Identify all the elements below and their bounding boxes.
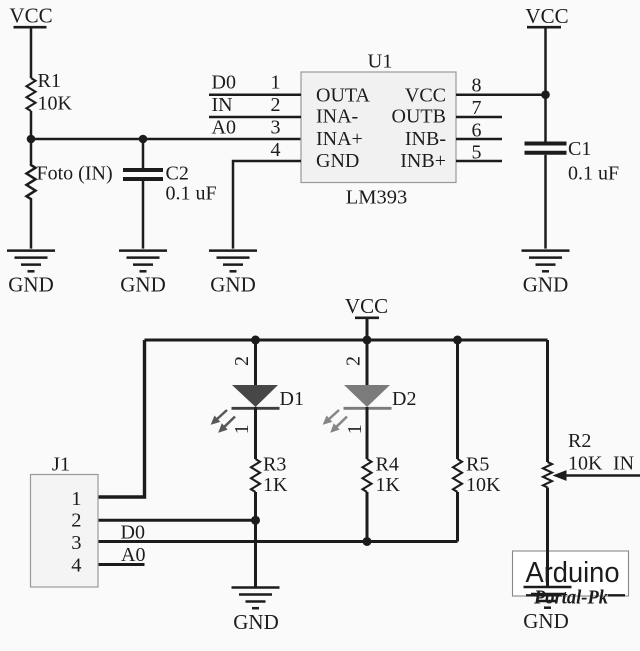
svg-text:GND: GND <box>523 273 569 297</box>
wire R2 to ground <box>546 488 549 587</box>
svg-text:D2: D2 <box>392 388 416 410</box>
wire R3 to ground through junction <box>254 492 257 587</box>
pin 3 label A0 <box>212 117 281 139</box>
svg-text:OUTB: OUTB <box>392 106 446 128</box>
node dot rail D1 <box>251 336 260 345</box>
resistor Foto (IN) photoresistor <box>27 139 113 249</box>
svg-text:R1: R1 <box>38 70 61 92</box>
node junction dot left <box>27 135 36 144</box>
connector J1 box <box>31 454 99 587</box>
svg-text:1: 1 <box>271 71 281 93</box>
ground GND6 <box>524 587 572 608</box>
pin 6 wire <box>456 119 502 141</box>
node dot rail D2 <box>363 336 372 345</box>
svg-text:LM393: LM393 <box>346 187 408 209</box>
svg-text:Arduino: Arduino <box>526 557 620 589</box>
VCC symbol top-left <box>9 4 52 28</box>
pin 5 wire <box>456 141 502 163</box>
op-amp U1 LM393 box <box>301 51 456 209</box>
svg-text:D0: D0 <box>121 521 145 543</box>
pin 2 wire IN <box>209 94 301 117</box>
wire VCC to R1 <box>30 27 33 78</box>
svg-text:1K: 1K <box>376 474 401 496</box>
svg-text:D0: D0 <box>212 71 236 93</box>
svg-text:10K: 10K <box>568 453 603 475</box>
wire bottom net J1 pin3 <box>98 540 458 543</box>
ground GND3 <box>209 251 257 297</box>
ground GND2 <box>119 251 167 297</box>
wire D2 to R4 <box>366 407 369 459</box>
wire VCC down to C1 <box>544 27 547 141</box>
svg-text:GND: GND <box>523 609 569 633</box>
svg-text:D1: D1 <box>280 388 304 410</box>
svg-text:1: 1 <box>231 424 253 434</box>
svg-text:10K: 10K <box>466 474 501 496</box>
potentiometer R2 <box>543 430 634 487</box>
svg-text:VCC: VCC <box>405 84 446 106</box>
svg-text:8: 8 <box>472 75 482 97</box>
svg-text:GND: GND <box>210 273 256 297</box>
wire C2 to ground <box>142 181 145 249</box>
svg-text:GND: GND <box>316 150 359 172</box>
node dot rail R5 <box>453 336 462 345</box>
resistor R5 <box>453 454 501 497</box>
svg-text:VCC: VCC <box>345 294 388 318</box>
svg-text:2: 2 <box>343 356 365 366</box>
svg-text:1K: 1K <box>263 474 288 496</box>
svg-text:GND: GND <box>120 273 166 297</box>
svg-text:4: 4 <box>271 139 281 161</box>
capacitor C1 <box>525 138 620 185</box>
wire rail to D1 <box>254 340 257 385</box>
capacitor C2 <box>123 163 217 205</box>
node dot R4 bottom <box>363 537 372 546</box>
wire rail to R5 <box>456 340 459 459</box>
wire R4 to bottom net <box>366 492 369 542</box>
svg-text:Foto (IN): Foto (IN) <box>37 163 113 185</box>
svg-text:4: 4 <box>71 555 81 577</box>
wire VCC to rail <box>366 318 369 340</box>
pin 4 wire to ground <box>233 139 301 249</box>
resistor R4 <box>363 454 401 497</box>
svg-text:J1: J1 <box>52 454 70 476</box>
node junction dot C2 <box>139 135 148 144</box>
node junction dot pin8/VCC <box>541 90 550 99</box>
svg-text:2: 2 <box>71 509 81 531</box>
svg-text:GND: GND <box>8 273 54 297</box>
pin 1 wire D0 <box>209 71 301 94</box>
svg-text:3: 3 <box>71 532 81 554</box>
light emission arrows D1 <box>212 410 236 432</box>
Portal-Pk logo script <box>526 587 625 609</box>
svg-text:A0: A0 <box>212 117 236 139</box>
pin 8 wire <box>456 75 546 97</box>
svg-text:R5: R5 <box>466 454 489 476</box>
wire VCC rail <box>145 339 548 342</box>
svg-text:INA+: INA+ <box>316 128 363 150</box>
svg-text:OUTA: OUTA <box>316 84 371 106</box>
wire J1 pin1 to rail <box>98 340 145 497</box>
ground GND4 <box>522 251 570 297</box>
resistor R1 <box>27 70 73 115</box>
VCC symbol top-right <box>525 4 568 28</box>
svg-text:R2: R2 <box>568 430 591 452</box>
svg-text:INA-: INA- <box>316 106 358 128</box>
svg-text:1: 1 <box>344 424 366 434</box>
node dot R3 / J1 pin2 <box>251 516 260 525</box>
wire R5 to bottom net <box>456 492 459 542</box>
svg-text:Portal-Pk: Portal-Pk <box>533 587 608 609</box>
wire J1 pin4 stub <box>98 563 145 566</box>
svg-text:2: 2 <box>231 356 253 366</box>
svg-text:GND: GND <box>233 610 279 634</box>
pin 7 wire <box>456 97 502 119</box>
svg-text:0.1 uF: 0.1 uF <box>166 183 217 205</box>
VCC symbol bottom-center <box>345 294 388 318</box>
svg-text:2: 2 <box>271 94 281 116</box>
svg-text:6: 6 <box>472 119 482 141</box>
svg-text:C2: C2 <box>166 163 189 185</box>
svg-text:VCC: VCC <box>9 4 52 28</box>
LED D1 <box>232 385 304 410</box>
svg-text:IN: IN <box>613 453 634 475</box>
wire C1 to ground <box>544 155 547 249</box>
resistor R3 <box>251 454 288 497</box>
svg-text:5: 5 <box>472 141 482 163</box>
svg-text:C1: C1 <box>568 138 591 160</box>
svg-text:10K: 10K <box>38 93 73 115</box>
svg-text:R4: R4 <box>376 454 399 476</box>
svg-text:INB+: INB+ <box>400 150 446 172</box>
svg-text:3: 3 <box>271 117 281 139</box>
Arduino logo box <box>513 551 629 596</box>
svg-text:7: 7 <box>472 97 482 119</box>
ground GND1 <box>7 251 55 297</box>
svg-text:A0: A0 <box>121 544 145 566</box>
ground GND5 <box>232 588 280 635</box>
light emission arrows D2 <box>324 410 348 432</box>
svg-text:1: 1 <box>71 488 81 510</box>
wire node to C2 <box>142 139 145 168</box>
wire rail to D2 <box>366 340 369 385</box>
LED D2 <box>344 385 417 410</box>
wire J1 pin2 to R3 node <box>98 519 256 522</box>
wire rail corner to R2 <box>546 340 549 462</box>
svg-text:IN: IN <box>212 94 233 116</box>
wire main net y139 to U1 pin3 <box>31 138 301 141</box>
svg-text:R3: R3 <box>263 454 286 476</box>
wiper arrow IN <box>553 470 640 481</box>
wire D1 to R3 <box>254 407 257 459</box>
wire R1 to node <box>30 111 33 139</box>
svg-text:0.1 uF: 0.1 uF <box>568 163 619 185</box>
svg-text:VCC: VCC <box>525 4 568 28</box>
svg-text:INB-: INB- <box>405 128 446 150</box>
svg-text:U1: U1 <box>367 51 392 73</box>
